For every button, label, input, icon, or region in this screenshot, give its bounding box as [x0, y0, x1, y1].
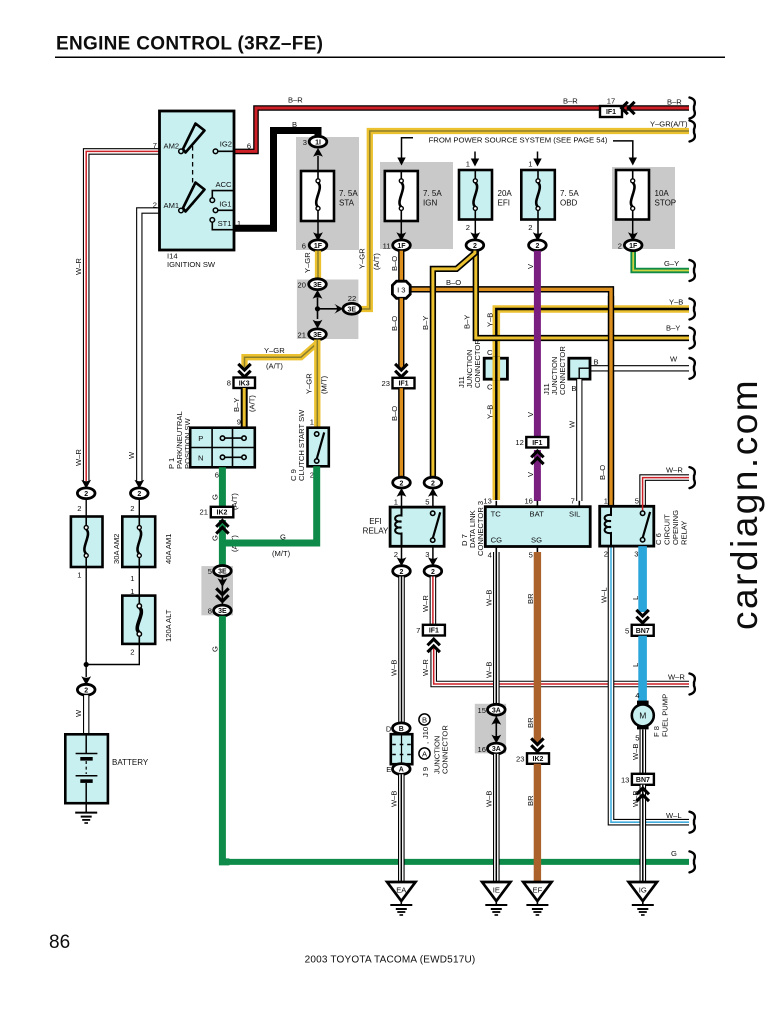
svg-text:B: B: [399, 726, 404, 733]
svg-text:13: 13: [621, 776, 629, 785]
label J11 JUNCTION CONNECTOR left: [457, 339, 482, 388]
svg-text:40A AM1: 40A AM1: [164, 534, 173, 564]
label J9 (A) J10 (B): [419, 714, 430, 777]
spade arrow into oval 2 battery: [81, 676, 91, 685]
wire B-R top horizontal: [234, 108, 689, 151]
svg-text:22: 22: [348, 294, 356, 303]
gray connector background STOP fuse: [612, 167, 675, 249]
svg-text:7: 7: [153, 141, 157, 150]
spade arrow down into 3A 16: [491, 735, 501, 744]
data link connector 3 D7: [485, 501, 590, 552]
svg-text:21: 21: [200, 508, 208, 517]
fuse 7.5A STA: [301, 171, 334, 221]
svg-text:1: 1: [130, 574, 134, 583]
svg-text:W–R: W–R: [666, 466, 683, 475]
svg-text:CONNECTOR: CONNECTOR: [473, 339, 482, 388]
svg-text:cardiagn.com: cardiagn.com: [724, 378, 765, 630]
svg-text:8: 8: [208, 607, 212, 616]
svg-text:7. 5A: 7. 5A: [339, 189, 358, 198]
svg-text:Y–GR: Y–GR: [305, 373, 314, 394]
wire into relay pin 1: [401, 495, 403, 507]
oval 3E 5: [214, 566, 232, 577]
ignition switch I14: [160, 111, 235, 250]
wire AM2 to junction: [85, 567, 87, 677]
oval 2 OBD fuse: [529, 240, 547, 251]
svg-text:I 3: I 3: [397, 286, 405, 295]
svg-text:1: 1: [466, 160, 470, 169]
wire B-O I3 down to IF1 23: [398, 298, 404, 368]
spade and chevron between 3E ovals: [218, 578, 228, 587]
wire OBD fuse to oval: [537, 220, 539, 235]
connector box BN7 5: [632, 625, 654, 636]
spade arrow down into oval pin2: [397, 557, 407, 566]
mechanical link dashed: [192, 146, 194, 205]
svg-text:3: 3: [303, 138, 307, 147]
svg-text:5: 5: [208, 567, 212, 576]
wire between 3A ovals: [495, 715, 497, 743]
wire V OBD to IF1 12: [534, 251, 541, 437]
svg-text:3: 3: [634, 550, 638, 559]
wire B-O vertical over crossings: [608, 296, 614, 500]
svg-text:W–R: W–R: [74, 258, 83, 275]
svg-text:BATTERY: BATTERY: [112, 758, 149, 767]
spade arrow down into 1F: [313, 232, 323, 241]
svg-text:16: 16: [524, 497, 532, 506]
wire 3E junction vertical: [317, 298, 319, 320]
svg-text:G: G: [211, 646, 220, 652]
wire BR DLC3 SG down: [534, 552, 541, 743]
svg-text:B–O: B–O: [390, 256, 399, 271]
battery: [65, 734, 108, 803]
clutch start switch C9: [308, 428, 329, 467]
label EFI RELAY: [363, 517, 389, 536]
svg-text:C: C: [487, 348, 493, 357]
label JUNCTION CONNECTOR J9: [433, 725, 450, 774]
svg-text:2: 2: [528, 223, 532, 232]
svg-text:5: 5: [529, 551, 533, 560]
chevrons down into IF1 23: [395, 364, 407, 377]
wire AM1 to ALT: [138, 567, 140, 596]
svg-text:1F: 1F: [397, 243, 406, 250]
svg-text:N: N: [198, 453, 203, 462]
page brace G: [690, 851, 695, 872]
wire IGN fuse to 1F: [400, 221, 402, 234]
svg-text:8: 8: [227, 379, 231, 388]
chevrons left into IF1 17: [622, 102, 635, 114]
svg-text:20: 20: [298, 281, 306, 290]
svg-text:9: 9: [237, 418, 241, 427]
svg-text:B–R: B–R: [667, 98, 682, 107]
page brace Y-GR: [690, 121, 695, 142]
connector box IF1 23: [393, 378, 415, 389]
svg-text:TC: TC: [491, 510, 502, 519]
chevrons up into IF1 7: [428, 639, 440, 652]
spade arrow up into 3A 15: [491, 716, 501, 725]
svg-text:W–B: W–B: [631, 791, 640, 807]
power feed bracket STOP: [613, 141, 637, 166]
svg-text:FUEL PUMP: FUEL PUMP: [661, 694, 670, 737]
svg-text:2: 2: [466, 223, 470, 232]
svg-text:IK2: IK2: [533, 756, 544, 763]
ground EA: [387, 882, 415, 915]
wire W-B DLC3 CG down: [493, 552, 500, 705]
svg-text:BR: BR: [526, 593, 535, 604]
svg-text:W–B: W–B: [631, 744, 640, 760]
svg-text:7: 7: [571, 497, 575, 506]
svg-text:3A: 3A: [492, 746, 501, 753]
svg-text:Y–B: Y–B: [669, 298, 683, 307]
svg-text:IGNITION SW: IGNITION SW: [167, 260, 216, 269]
svg-text:CG: CG: [491, 536, 502, 545]
connector box IF1 7: [423, 625, 445, 636]
svg-text:RELAY: RELAY: [680, 521, 689, 545]
label D7 DATA LINK CONNECTOR 3: [460, 501, 485, 556]
contact IG1 with wire: [213, 208, 234, 213]
svg-text:W: W: [127, 451, 136, 459]
N row contacts: [220, 455, 246, 459]
spade arrow up into 1I: [313, 148, 323, 157]
svg-text:B–O: B–O: [390, 316, 399, 331]
svg-text:W–R: W–R: [421, 595, 430, 612]
ground IG: [629, 882, 657, 915]
svg-text:1F: 1F: [629, 243, 638, 250]
svg-text:A: A: [399, 767, 404, 774]
svg-text:(M/T): (M/T): [320, 375, 329, 394]
svg-text:6: 6: [215, 471, 219, 480]
svg-text:Y–GR(A/T): Y–GR(A/T): [650, 120, 688, 129]
fuse 40A AM1: [122, 517, 155, 568]
spade arrow down into oval pin3: [428, 557, 438, 566]
wire G-Y from STOP fuse to edge: [633, 251, 689, 271]
connector box BN7 13: [632, 774, 654, 785]
connector box IF1 17: [600, 106, 622, 117]
spade arrow down into oval 2 OBD: [533, 232, 543, 241]
svg-text:AM2: AM2: [164, 142, 180, 151]
oval 3E 8: [214, 605, 232, 616]
svg-text:2: 2: [604, 550, 608, 559]
EFI relay: [390, 507, 444, 546]
svg-text:G: G: [280, 533, 286, 542]
svg-text:4: 4: [635, 691, 639, 700]
wire into STA fuse: [317, 156, 319, 171]
svg-text:7: 7: [416, 626, 420, 635]
oval 2 battery: [77, 684, 95, 695]
wire B-Y IK3 to P1: [241, 388, 248, 428]
P row contacts: [220, 436, 246, 440]
svg-text:B–R: B–R: [563, 97, 578, 106]
fuel pump F8: [632, 701, 654, 730]
svg-text:W: W: [670, 355, 678, 364]
wire Y-GR STA to 3E: [315, 251, 321, 279]
wire Y-GR(A/T) from 22 3E up and right: [361, 131, 690, 309]
contact ST1 with wire: [210, 218, 234, 230]
svg-text:B–Y: B–Y: [666, 324, 680, 333]
svg-text:IF1: IF1: [398, 381, 408, 388]
svg-text:5: 5: [635, 497, 639, 506]
label J11 JUNCTION CONNECTOR right: [542, 346, 567, 395]
wire Y-GR (M/T) to clutch start switch: [314, 340, 320, 428]
spade arrow up into oval pin5: [428, 488, 438, 497]
oval 2 W: [131, 488, 149, 499]
svg-text:IK2: IK2: [217, 510, 228, 517]
chevrons up into IK2: [216, 521, 228, 534]
svg-text:B–R: B–R: [288, 96, 303, 105]
gray connector background 3E junction: [297, 280, 359, 340]
svg-text:POSITION SW: POSITION SW: [183, 418, 192, 469]
contact AM2: [179, 149, 184, 154]
svg-text:2: 2: [153, 201, 157, 210]
svg-text:STA: STA: [339, 199, 355, 208]
spade arrow down into oval 2 EFI: [470, 232, 480, 241]
svg-text:3E: 3E: [218, 608, 227, 615]
spade arrow into oval 2 AM2: [81, 480, 91, 489]
oval 2 W-R: [77, 488, 95, 499]
svg-text:C: C: [487, 383, 493, 392]
wire between 3E ovals: [221, 576, 223, 605]
svg-text:Y–B: Y–B: [486, 405, 495, 419]
svg-text:W: W: [74, 709, 83, 717]
label C6 CIRCUIT OPENING RELAY: [654, 510, 689, 545]
svg-text:21: 21: [298, 331, 306, 340]
svg-text:W: W: [568, 420, 577, 428]
chevrons down into IK2 23: [531, 738, 543, 751]
svg-text:(A/T): (A/T): [248, 395, 257, 412]
junction node 3E: [315, 306, 320, 311]
page brace W-L: [690, 812, 695, 833]
svg-text:5: 5: [425, 498, 429, 507]
wire W horizontal from J11 to edge: [590, 365, 689, 371]
spade arrow up into 3E 20: [313, 290, 323, 299]
wire W-B 3A to ground IE: [493, 754, 500, 883]
svg-text:EF: EF: [533, 886, 543, 895]
svg-text:3E: 3E: [313, 332, 322, 339]
oval 3E 21: [309, 329, 327, 340]
wire G from P1 to IK2: [219, 467, 226, 507]
svg-text:BR: BR: [526, 717, 535, 728]
oval 2 EFI fuse: [466, 240, 484, 251]
svg-text:1: 1: [310, 418, 314, 427]
svg-text:W–R: W–R: [668, 673, 685, 682]
svg-text:30A AM2: 30A AM2: [112, 534, 121, 564]
svg-text:2: 2: [130, 648, 134, 657]
svg-text:CONNECTOR: CONNECTOR: [441, 725, 450, 774]
svg-text:IF1: IF1: [429, 628, 439, 635]
page brace W-R lower: [690, 674, 695, 695]
wire W-B EFI relay to J9: [398, 577, 405, 725]
wire G main down to bottom: [222, 616, 229, 862]
svg-text:IE: IE: [493, 886, 500, 895]
wire G from C9 merge: [222, 466, 316, 543]
svg-text:IG: IG: [639, 886, 647, 895]
svg-text:2: 2: [84, 687, 88, 694]
svg-text:IF1: IF1: [606, 109, 616, 116]
oval 1I STA top: [309, 136, 327, 147]
chevrons up into BN7 13: [637, 788, 649, 801]
oval 1F STA bottom: [309, 240, 327, 251]
svg-text:W–L: W–L: [666, 811, 682, 820]
svg-text:P: P: [198, 434, 203, 443]
octagon I3: [392, 281, 410, 298]
svg-text:Y–GR: Y–GR: [303, 252, 312, 273]
svg-text:ST1: ST1: [218, 219, 232, 228]
oval 2 EFI relay pin 1: [393, 477, 411, 488]
svg-text:B–O: B–O: [446, 278, 461, 287]
wire into relay pin 5: [432, 495, 434, 511]
svg-text:7. 5A: 7. 5A: [560, 189, 579, 198]
oval 3A 16: [488, 743, 506, 754]
ground IE: [482, 882, 510, 915]
connector box IK2 21: [211, 507, 234, 518]
svg-text:B: B: [594, 358, 599, 367]
svg-text:2: 2: [473, 243, 477, 250]
power feed arrow OBD: [533, 152, 541, 167]
svg-text:Y–GR: Y–GR: [358, 248, 367, 269]
svg-text:CLUTCH START SW: CLUTCH START SW: [297, 409, 306, 481]
spade arrow down into 1F 11: [396, 232, 406, 241]
svg-text:BAT: BAT: [530, 510, 545, 519]
svg-text:CONNECTOR: CONNECTOR: [558, 346, 567, 395]
svg-text:10A: 10A: [655, 189, 670, 198]
svg-text:5: 5: [625, 627, 629, 636]
wire W to battery: [83, 695, 89, 734]
wire B-O IF1 to EFI relay oval: [398, 388, 404, 477]
svg-text:B: B: [571, 384, 576, 393]
gray connector background 3E lower: [201, 566, 233, 615]
wire relay pin2 to oval: [401, 546, 403, 560]
chevrons up into IF1 12: [531, 451, 543, 464]
spade arrow down into 3E 21: [313, 320, 323, 329]
svg-text:17: 17: [607, 97, 615, 106]
oval 1F 11: [393, 240, 411, 251]
gray connector background STA fuse: [296, 137, 359, 250]
title underline: [55, 56, 725, 58]
svg-text:12: 12: [515, 438, 523, 447]
svg-text:Y–GR: Y–GR: [264, 346, 285, 355]
svg-text:1: 1: [604, 497, 608, 506]
svg-text:BN7: BN7: [636, 628, 650, 635]
connector box IK3 8: [234, 378, 256, 389]
svg-text:BN7: BN7: [636, 777, 650, 784]
svg-text:M: M: [639, 711, 646, 721]
svg-text:7. 5A: 7. 5A: [423, 189, 442, 198]
contact IG2 with wire: [213, 149, 234, 154]
svg-text:3: 3: [425, 550, 429, 559]
svg-text:3E: 3E: [348, 307, 357, 314]
svg-text:2: 2: [130, 504, 134, 513]
wire ALT to junction: [86, 644, 139, 665]
oval 3E 20: [309, 279, 327, 290]
svg-text:J10: J10: [421, 727, 430, 739]
svg-text:15: 15: [478, 706, 486, 715]
svg-text:ACC: ACC: [215, 180, 232, 189]
svg-text:W–L: W–L: [600, 587, 609, 603]
svg-text:(M/T): (M/T): [272, 549, 291, 558]
svg-text:3E: 3E: [218, 569, 227, 576]
svg-text:J 9: J 9: [421, 767, 430, 777]
wire B-Y EFI fuse to relay pin 5: [433, 251, 475, 478]
page brace B-R: [690, 98, 695, 119]
svg-text:Y–B: Y–B: [486, 313, 495, 327]
svg-text:6: 6: [302, 242, 306, 251]
svg-text:2: 2: [394, 550, 398, 559]
contact ACC with wire: [210, 191, 234, 203]
svg-text:AM1: AM1: [164, 201, 180, 210]
oval 1F STOP: [624, 240, 642, 251]
svg-text:86: 86: [49, 932, 70, 953]
power feed bracket IGN: [397, 138, 413, 166]
svg-text:23: 23: [516, 755, 524, 764]
svg-text:SIL: SIL: [569, 510, 580, 519]
svg-text:G: G: [211, 535, 220, 541]
wire into fuse AM2: [85, 499, 87, 517]
svg-text:EA: EA: [396, 886, 407, 895]
svg-text:120A ALT: 120A ALT: [164, 609, 173, 642]
svg-text:2003 TOYOTA TACOMA (EWD517U): 2003 TOYOTA TACOMA (EWD517U): [305, 955, 476, 966]
svg-text:B–Y: B–Y: [463, 315, 472, 329]
oval 2 EFI relay pin 3: [424, 566, 442, 577]
svg-text:W–R: W–R: [421, 659, 430, 676]
svg-text:EFI: EFI: [369, 517, 381, 526]
wire W from J11 down to SIL: [576, 379, 582, 501]
wire W from AM1 down left side: [139, 211, 160, 482]
wire STA fuse to 1F: [317, 221, 319, 234]
ground EF: [523, 882, 551, 915]
svg-text:IGN: IGN: [423, 199, 437, 208]
power feed arrow EFI: [471, 152, 479, 167]
svg-text:5: 5: [635, 734, 639, 743]
svg-text:L: L: [631, 663, 640, 667]
svg-text:2: 2: [618, 242, 622, 251]
svg-text:20A: 20A: [498, 189, 513, 198]
switch arm AM1: [183, 183, 205, 212]
svg-text:2: 2: [431, 569, 435, 576]
svg-text:B–Y: B–Y: [421, 316, 430, 330]
svg-text:3A: 3A: [492, 707, 501, 714]
gray connector background 3A: [475, 704, 506, 754]
svg-text:B–O: B–O: [390, 406, 399, 421]
svg-text:FROM POWER SOURCE SYSTEM (SEE: FROM POWER SOURCE SYSTEM (SEE PAGE 54): [429, 136, 608, 145]
svg-text:B: B: [292, 120, 297, 129]
svg-text:CONNECTOR 3: CONNECTOR 3: [476, 501, 485, 556]
svg-text:2: 2: [400, 569, 404, 576]
wire STOP fuse to oval: [632, 220, 634, 235]
svg-text:2: 2: [400, 480, 404, 487]
svg-text:16: 16: [478, 745, 486, 754]
wire W-R to C6 pin 5: [643, 478, 689, 507]
chevrons down into IK3: [238, 364, 250, 377]
svg-text:W–B: W–B: [390, 791, 399, 807]
wire W-L from C6 pin 2 to edge: [611, 546, 689, 822]
svg-text:1: 1: [528, 160, 532, 169]
page brace Y-B: [690, 299, 695, 320]
svg-text:BR: BR: [526, 795, 535, 806]
wire G bottom horizontal: [225, 859, 689, 865]
svg-text:G: G: [671, 849, 677, 858]
fuse 7.5A OBD: [521, 170, 555, 220]
spade arrow right into 3E 22: [334, 304, 343, 314]
svg-text:6: 6: [247, 142, 251, 151]
svg-text:1: 1: [77, 571, 81, 580]
svg-text:L: L: [631, 596, 640, 600]
fuse 7.5A IGN: [385, 171, 418, 221]
page brace W: [690, 358, 695, 379]
svg-text:W–B: W–B: [485, 791, 494, 807]
svg-text:2: 2: [77, 504, 81, 513]
battery ground: [75, 803, 97, 823]
wire 3E junction to 22: [318, 308, 338, 310]
connector box IF1 12: [526, 437, 548, 448]
spade arrow into oval 2 AM1: [134, 480, 144, 489]
